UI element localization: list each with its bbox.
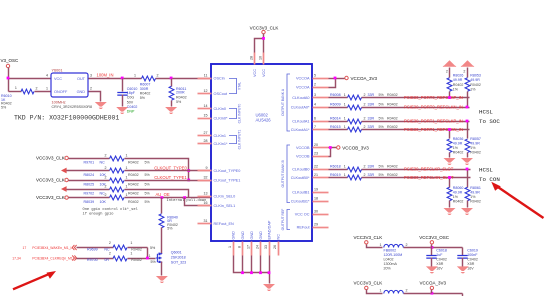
svg-text:20%: 20% xyxy=(384,267,392,271)
svg-text:16V: 16V xyxy=(467,267,474,271)
svg-text:R0402: R0402 xyxy=(453,200,464,204)
svg-text:C0G: C0G xyxy=(127,96,135,100)
svg-text:28: 28 xyxy=(250,56,254,60)
pin 31 REFout_EN xyxy=(198,223,212,225)
svg-text:CLKOUT_TYPE1: CLKOUT_TYPE1 xyxy=(154,175,187,180)
pin 3 CLKoutA0 xyxy=(313,97,329,99)
svg-text:R0402: R0402 xyxy=(131,258,142,262)
svg-text:REFout_EN: REFout_EN xyxy=(214,222,235,226)
svg-text:1%: 1% xyxy=(453,87,459,91)
svg-text:100MHz: 100MHz xyxy=(52,101,66,105)
svg-text:CLKin0*: CLKin0* xyxy=(214,117,228,121)
svg-text:CLKoutA0: CLKoutA0 xyxy=(292,96,309,100)
ferrite bead FB6002 xyxy=(384,244,404,247)
svg-text:GND: GND xyxy=(250,231,254,240)
resistor R6010 xyxy=(9,91,22,93)
svg-text:DNP: DNP xyxy=(127,110,135,114)
svg-text:VCC: VCC xyxy=(253,69,257,77)
svg-text:1: 1 xyxy=(126,166,128,170)
svg-text:2: 2 xyxy=(314,82,316,86)
group bracket CLK INPUT0 xyxy=(229,109,237,119)
svg-text:R0402: R0402 xyxy=(470,83,481,87)
node junction AU_OE branch xyxy=(183,196,186,199)
wire net PCIE30_PORT1_REFCLKN_IN xyxy=(329,129,348,131)
svg-text:R0402: R0402 xyxy=(140,92,151,96)
pin 4 CLKoutA0* xyxy=(313,107,329,109)
svg-text:5%: 5% xyxy=(167,227,173,231)
svg-text:22: 22 xyxy=(314,164,318,168)
offpage connector WAKEn xyxy=(72,245,76,250)
wire filter2 xyxy=(367,290,383,294)
node junction R8026 P0 xyxy=(448,96,451,99)
svg-text:16V: 16V xyxy=(436,267,443,271)
svg-text:To CON: To CON xyxy=(479,176,500,183)
svg-text:VCCOB_3V3: VCCOB_3V3 xyxy=(342,145,369,150)
svg-text:49.9R: 49.9R xyxy=(453,78,463,82)
svg-text:CLKoutA1*: CLKoutA1* xyxy=(291,128,310,132)
svg-text:if enough gpio: if enough gpio xyxy=(83,212,114,217)
svg-text:CLKin0: CLKin0 xyxy=(214,107,226,111)
svg-text:OUT: OUT xyxy=(77,77,86,81)
svg-text:26: 26 xyxy=(273,245,277,249)
node junction VCCOB xyxy=(329,146,332,149)
pin 16 CLKin_SEL1 xyxy=(198,205,212,207)
resistor R8036 xyxy=(449,130,451,139)
svg-text:32: 32 xyxy=(204,175,208,179)
svg-text:2: 2 xyxy=(364,117,366,121)
ground R8057 xyxy=(461,158,473,165)
node junction AU_OE at R8040 xyxy=(160,196,163,199)
svg-text:1: 1 xyxy=(126,193,128,197)
svg-text:R0402: R0402 xyxy=(470,200,481,204)
svg-text:R0402: R0402 xyxy=(176,95,187,99)
node junction R8057 P1 xyxy=(466,120,469,123)
svg-text:17: 17 xyxy=(246,245,250,249)
resistor R8053 xyxy=(467,68,469,78)
svg-text:R6019: R6019 xyxy=(330,173,341,177)
wire net PCIE30_PORT0_REFCLKP_IN xyxy=(329,97,348,99)
capacitor filter2 xyxy=(462,294,464,296)
svg-text:R6015: R6015 xyxy=(330,125,341,129)
resistor R6007 xyxy=(142,76,156,81)
svg-text:10K: 10K xyxy=(100,200,107,204)
svg-text:33R: 33R xyxy=(368,125,375,129)
svg-text:2: 2 xyxy=(105,166,107,170)
svg-text:16: 16 xyxy=(204,201,208,205)
svg-text:1: 1 xyxy=(344,93,346,97)
svg-text:1%: 1% xyxy=(470,146,476,150)
svg-text:4: 4 xyxy=(314,102,316,106)
svg-text:R0402: R0402 xyxy=(128,191,139,195)
svg-text:R8026: R8026 xyxy=(453,74,464,78)
svg-text:VCC3V3_OSC: VCC3V3_OSC xyxy=(419,235,450,240)
resistor R9701 xyxy=(110,156,124,161)
wire VCCOB tie xyxy=(329,147,337,149)
svg-text:1: 1 xyxy=(126,154,128,158)
svg-text:5%: 5% xyxy=(379,93,385,97)
wire R9701 to CLKOUT_TYPE0 net xyxy=(125,159,189,181)
svg-text:VCCOB: VCCOB xyxy=(296,146,310,150)
pin 17 GND xyxy=(251,242,253,256)
svg-text:49.9R: 49.9R xyxy=(453,141,463,145)
pin 32 CLKout_TYPE1 xyxy=(198,180,212,182)
svg-text:300R: 300R xyxy=(140,87,149,91)
svg-text:17,34: 17,34 xyxy=(12,257,21,261)
svg-text:31: 31 xyxy=(204,219,208,223)
svg-text:C0402: C0402 xyxy=(436,258,447,262)
svg-text:EPAD/DAP: EPAD/DAP xyxy=(267,220,271,239)
svg-text:CLKOUT_TYPE0: CLKOUT_TYPE0 xyxy=(154,166,187,171)
ground Y6001 xyxy=(95,102,107,109)
resistor R8060 xyxy=(449,178,451,188)
svg-text:33R: 33R xyxy=(368,103,375,107)
wire R9702 to AU_OE net xyxy=(125,190,189,198)
wire net CLKOUT_TYPE0 xyxy=(125,170,212,172)
svg-text:1: 1 xyxy=(130,241,132,245)
svg-text:33R: 33R xyxy=(368,117,375,121)
svg-text:3: 3 xyxy=(314,93,316,97)
svg-text:5%: 5% xyxy=(379,165,385,169)
svg-text:11: 11 xyxy=(204,73,208,77)
svg-text:6: 6 xyxy=(314,116,316,120)
svg-text:24: 24 xyxy=(255,245,259,249)
svg-text:29: 29 xyxy=(314,222,318,226)
resistor R6018 xyxy=(348,167,362,172)
wire R8025 row xyxy=(69,180,110,182)
svg-text:SOT_323: SOT_323 xyxy=(171,261,186,265)
wire R8039 row xyxy=(69,197,110,199)
svg-text:1: 1 xyxy=(134,74,136,78)
svg-text:2SK3018: 2SK3018 xyxy=(171,256,186,260)
svg-text:1: 1 xyxy=(46,87,48,91)
pin 6 CLKoutA1 xyxy=(313,121,329,123)
power VCCOB_3V3 xyxy=(337,146,340,149)
resistor R6015 xyxy=(348,127,362,132)
svg-text:OUTPUT BANK B: OUTPUT BANK B xyxy=(281,159,285,187)
svg-text:R6009: R6009 xyxy=(330,103,341,107)
svg-text:L0402: L0402 xyxy=(384,258,394,262)
svg-text:HCSL: HCSL xyxy=(479,109,493,116)
wire net CLKOUT_TYPE1 xyxy=(125,180,212,182)
svg-text:12: 12 xyxy=(204,89,208,93)
svg-text:One gpio control clk*_sel: One gpio control clk*_sel xyxy=(83,207,139,212)
svg-text:CLKout_TYPE1: CLKout_TYPE1 xyxy=(214,179,241,183)
svg-text:8: 8 xyxy=(237,246,241,248)
svg-text:9: 9 xyxy=(206,166,208,170)
svg-text:5%: 5% xyxy=(379,125,385,129)
svg-text:5%: 5% xyxy=(151,260,157,264)
pin 29 REFout xyxy=(313,227,329,229)
svg-text:13: 13 xyxy=(204,191,208,195)
svg-text:2: 2 xyxy=(105,193,107,197)
svg-text:2: 2 xyxy=(364,125,366,129)
pin 24 GND xyxy=(260,242,262,256)
svg-text:2: 2 xyxy=(109,241,111,245)
svg-text:Internal pull-down: Internal pull-down xyxy=(167,198,207,203)
svg-text:CLKin_SEL1: CLKin_SEL1 xyxy=(214,204,236,208)
svg-text:5%: 5% xyxy=(145,182,151,186)
svg-text:23: 23 xyxy=(314,151,318,155)
svg-text:R8053: R8053 xyxy=(470,74,481,78)
pin 14 CLKin0 xyxy=(198,108,212,110)
svg-text:PCIE3BX4_CLKREQn_M1_L: PCIE3BX4_CLKREQn_M1_L xyxy=(32,257,76,261)
svg-text:R0402: R0402 xyxy=(470,151,481,155)
svg-text:CLK INPUT1: CLK INPUT1 xyxy=(237,130,241,150)
wire GND bus xyxy=(234,256,270,273)
svg-text:PCIE30_REFCLKN_SLOT: PCIE30_REFCLKN_SLOT xyxy=(404,175,454,180)
svg-text:C6019: C6019 xyxy=(467,248,478,252)
svg-text:100nF: 100nF xyxy=(467,253,478,257)
pin 33 EPAD/DAP xyxy=(269,242,271,256)
wire R9702 row xyxy=(67,189,110,191)
svg-text:17: 17 xyxy=(23,246,27,250)
power symbol V3_OSC xyxy=(6,64,9,67)
svg-text:R0402: R0402 xyxy=(387,93,398,97)
group bracket CLK INPUT1 xyxy=(229,136,237,144)
svg-text:49.9R: 49.9R xyxy=(470,141,480,145)
transistor Q2 Q6001 xyxy=(156,253,162,263)
svg-text:R8039: R8039 xyxy=(84,200,95,204)
svg-text:5%: 5% xyxy=(379,173,385,177)
svg-text:VCC3V3_CLK: VCC3V3_CLK xyxy=(36,178,65,183)
pin 18 CLKoutB1* xyxy=(313,201,329,203)
resistor R8057 xyxy=(467,122,469,139)
wire net AU_OE xyxy=(125,197,212,199)
svg-text:1: 1 xyxy=(228,246,232,248)
svg-text:Y6001: Y6001 xyxy=(52,69,63,73)
capacitor C6018 xyxy=(431,248,433,256)
svg-text:CRY4_3R2X2R5S0X0R8: CRY4_3R2X2R5S0X0R8 xyxy=(52,105,93,109)
svg-text:2: 2 xyxy=(364,93,366,97)
svg-text:5%: 5% xyxy=(379,103,385,107)
resistor R8026 xyxy=(449,68,451,78)
svg-text:R0402: R0402 xyxy=(128,173,139,177)
resistor R8025 xyxy=(110,178,124,183)
pin 10 VCC top xyxy=(263,53,265,65)
svg-text:49.9R: 49.9R xyxy=(470,78,480,82)
svg-text:21: 21 xyxy=(314,173,318,177)
svg-text:2: 2 xyxy=(364,103,366,107)
wire Q6001 source to ground xyxy=(161,262,163,276)
power VCCOA_3V3 xyxy=(345,76,348,79)
svg-text:CLKoutB1*: CLKoutB1* xyxy=(291,200,310,204)
svg-text:1%: 1% xyxy=(453,195,459,199)
svg-text:27: 27 xyxy=(204,131,208,135)
svg-text:R9702: R9702 xyxy=(84,191,95,195)
svg-text:7: 7 xyxy=(314,125,316,129)
oscillator Y6001 xyxy=(51,73,88,97)
svg-text:5: 5 xyxy=(314,73,316,77)
pin 26 NC xyxy=(278,242,280,256)
svg-text:CLKoutA0*: CLKoutA0* xyxy=(291,106,310,110)
svg-text:VCCOA_3V3: VCCOA_3V3 xyxy=(351,76,378,81)
node junction CLKOUT_TYPE0 xyxy=(187,169,190,172)
pin 19 CLKoutB1 xyxy=(313,192,329,194)
svg-text:2: 2 xyxy=(105,154,107,158)
svg-text:PCIE30_PORT1_REFCLKN_IN: PCIE30_PORT1_REFCLKN_IN xyxy=(404,127,463,132)
svg-text:VCC: VCC xyxy=(54,77,62,81)
pin 21 CLKoutB0* xyxy=(313,177,329,179)
svg-text:33R: 33R xyxy=(368,165,375,169)
offpage connector CLKREQn xyxy=(72,255,76,260)
ground arrow up left xyxy=(443,60,456,66)
svg-text:REFout: REFout xyxy=(297,226,311,230)
svg-text:2: 2 xyxy=(406,243,408,247)
svg-text:R6008: R6008 xyxy=(330,93,341,97)
node junction V3_OSC xyxy=(7,77,10,80)
svg-text:33R: 33R xyxy=(368,93,375,97)
wire R8024 row xyxy=(67,170,110,172)
ground C6018 xyxy=(426,266,438,273)
pin 28 CLKin1* xyxy=(198,143,212,145)
svg-text:5%: 5% xyxy=(145,173,151,177)
pin 11 OSCin xyxy=(198,78,212,80)
svg-text:GND: GND xyxy=(259,231,263,240)
ground R6011 xyxy=(165,107,177,114)
node junction VCCOA_3V3 filter xyxy=(431,292,434,295)
svg-text:33R: 33R xyxy=(368,173,375,177)
svg-text:GND: GND xyxy=(77,90,86,94)
svg-text:1%: 1% xyxy=(470,87,476,91)
svg-text:1: 1 xyxy=(344,125,346,129)
svg-text:Q6001: Q6001 xyxy=(171,251,182,255)
svg-text:CLKoutA1: CLKoutA1 xyxy=(292,120,309,124)
svg-text:2: 2 xyxy=(90,87,92,91)
wire net PCIE30_PORT0_REFCLKN_IN xyxy=(329,107,348,109)
svg-text:19: 19 xyxy=(314,187,318,191)
svg-text:XTAL: XTAL xyxy=(237,82,241,90)
svg-text:PCIE30_PORT0_REFCLKN_IN: PCIE30_PORT0_REFCLKN_IN xyxy=(404,104,463,109)
svg-text:1: 1 xyxy=(15,86,17,90)
svg-text:R6014: R6014 xyxy=(330,117,341,121)
svg-text:VCC3V3_CLK: VCC3V3_CLK xyxy=(250,25,279,30)
svg-text:2: 2 xyxy=(364,165,366,169)
svg-text:VCCOA: VCCOA xyxy=(296,86,310,90)
group bracket XTAL xyxy=(229,79,237,94)
svg-text:V3_OSC: V3_OSC xyxy=(1,58,20,63)
svg-text:30: 30 xyxy=(314,209,318,213)
svg-text:CLKin_SEL0: CLKin_SEL0 xyxy=(214,195,236,199)
svg-text:X5R: X5R xyxy=(436,262,443,266)
svg-text:R0402: R0402 xyxy=(453,83,464,87)
wire net 100M_IN xyxy=(89,78,142,80)
resistor R6014 xyxy=(348,119,362,124)
resistor R6008 xyxy=(348,95,362,100)
svg-text:3: 3 xyxy=(90,74,92,78)
pin 30 VCC OC xyxy=(313,214,329,216)
svg-text:CLKin1*: CLKin1* xyxy=(214,142,228,146)
svg-text:R0402: R0402 xyxy=(387,103,398,107)
svg-text:R0402: R0402 xyxy=(387,125,398,129)
node junction R8053 N0 xyxy=(466,106,469,109)
svg-text:PCIE30_PORT1_REFCLKP_IN: PCIE30_PORT1_REFCLKP_IN xyxy=(404,118,463,123)
svg-text:R0402: R0402 xyxy=(128,182,139,186)
svg-text:R9701: R9701 xyxy=(84,160,95,164)
svg-text:200R: 200R xyxy=(176,91,185,95)
svg-text:33: 33 xyxy=(264,245,268,249)
pin 20 VCCOB xyxy=(313,147,329,149)
ferrite bead FB6003 xyxy=(384,290,404,293)
ground R8061 xyxy=(461,208,473,215)
input port arrow row R9702 xyxy=(61,186,67,192)
svg-text:GND: GND xyxy=(231,231,235,240)
wire CLKREQn row xyxy=(77,258,114,260)
annotation arrow right xyxy=(498,187,544,218)
svg-text:1uF: 1uF xyxy=(436,253,443,257)
ground Q6001 xyxy=(156,276,168,283)
svg-text:ONOFF: ONOFF xyxy=(54,90,68,94)
pin 7 CLKoutA1* xyxy=(313,129,329,131)
resistor R8061 xyxy=(467,170,469,188)
node junction GND bus 3 xyxy=(259,271,262,274)
wire net PCIE30_REFCLKN_SLOT xyxy=(329,177,348,179)
svg-text:2: 2 xyxy=(157,74,159,78)
svg-text:PCIE3BX4_WAKEn_M1_L: PCIE3BX4_WAKEn_M1_L xyxy=(32,246,72,250)
node junction GND bus 2 xyxy=(250,271,253,274)
svg-text:1: 1 xyxy=(126,176,128,180)
node junction gate xyxy=(146,257,149,260)
svg-text:20: 20 xyxy=(314,143,318,147)
svg-text:R0402: R0402 xyxy=(387,173,398,177)
pin 28 VCC top xyxy=(254,53,256,65)
svg-text:R0402: R0402 xyxy=(387,117,398,121)
svg-text:1: 1 xyxy=(130,251,132,255)
svg-text:1: 1 xyxy=(126,185,128,189)
pin 9 CLKout_TYPE0 xyxy=(198,170,212,172)
svg-text:CLKoutB0: CLKoutB0 xyxy=(292,168,309,172)
svg-text:1300mA: 1300mA xyxy=(384,262,398,266)
wire net PCIE30_PORT1_REFCLKP_IN xyxy=(329,121,348,123)
svg-text:OSCin: OSCin xyxy=(214,77,225,81)
op-amp U1 clock buffer U6002 body xyxy=(211,64,312,241)
svg-text:2: 2 xyxy=(406,289,408,293)
svg-text:CLKout_TYPE0: CLKout_TYPE0 xyxy=(214,169,241,173)
svg-text:VCCOB: VCCOB xyxy=(296,155,310,159)
svg-text:C0402: C0402 xyxy=(467,258,478,262)
svg-text:R6018: R6018 xyxy=(330,165,341,169)
svg-text:OUTPUT BANK A: OUTPUT BANK A xyxy=(281,88,285,116)
svg-text:VCC3V3_CLK: VCC3V3_CLK xyxy=(354,235,383,240)
svg-text:1: 1 xyxy=(380,243,382,247)
node junction VCC top xyxy=(262,37,265,40)
svg-text:R0402: R0402 xyxy=(128,200,139,204)
svg-text:R0402: R0402 xyxy=(453,151,464,155)
svg-text:2: 2 xyxy=(446,70,448,74)
svg-text:VCCOA_3V3: VCCOA_3V3 xyxy=(420,280,447,285)
pin 13 CLKin_SEL0 xyxy=(198,196,212,198)
wire R9701 row xyxy=(69,158,110,160)
ground C6019 xyxy=(457,266,469,273)
capacitor C6019 xyxy=(462,248,464,256)
svg-text:GND: GND xyxy=(241,231,245,240)
resistor R9700 xyxy=(113,256,127,261)
svg-text:OUTPUT REF: OUTPUT REF xyxy=(281,209,285,231)
resistor R6019 xyxy=(348,175,362,180)
svg-text:VCCOA: VCCOA xyxy=(296,77,310,81)
group bracket OUTPUT BANK A xyxy=(287,74,290,131)
svg-text:AU5426: AU5426 xyxy=(256,117,272,122)
svg-text:28: 28 xyxy=(204,139,208,143)
svg-text:AU_OE: AU_OE xyxy=(156,192,170,197)
ground arrow up right xyxy=(461,60,474,66)
svg-text:C0402: C0402 xyxy=(127,105,138,109)
svg-text:VCC OC: VCC OC xyxy=(295,213,310,217)
svg-text:14: 14 xyxy=(204,104,208,108)
svg-text:2: 2 xyxy=(364,173,366,177)
svg-text:2: 2 xyxy=(105,176,107,180)
resistor R8024 xyxy=(110,168,124,173)
svg-text:R8036: R8036 xyxy=(453,137,464,141)
